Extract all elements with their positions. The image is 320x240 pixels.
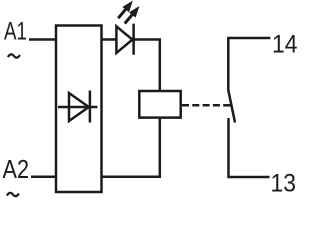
diode V1 triangle (69, 93, 89, 121)
module box (input circuit rectangle) (56, 26, 102, 193)
mechanical link (dashed) coil to contact (182, 104, 221, 107)
wire A1 to module box (29, 38, 57, 41)
wire box to LED anode (102, 38, 117, 41)
LED cathode bar (132, 24, 135, 55)
AC symbol under A1 (8, 54, 20, 57)
LED emission arrow 2 head (129, 6, 139, 18)
LED emission arrow 1 head (122, 1, 132, 13)
wire coil bottom down (159, 118, 162, 178)
contact lower fixed lead (227, 118, 230, 178)
diode V1 axis line (58, 106, 98, 109)
wire down to relay coil (159, 38, 162, 91)
wire terminal 14 (228, 37, 270, 40)
svg-text:A2: A2 (3, 156, 30, 184)
LED emission arrow 2 stem (125, 14, 133, 24)
wire terminal 13 (229, 176, 270, 179)
wire LED cathode to corner (134, 38, 160, 41)
AC symbol under A2 (7, 193, 19, 196)
LED emission arrow 1 stem (118, 9, 126, 19)
svg-text:A1: A1 (4, 18, 27, 46)
relay coil K1 (139, 91, 180, 118)
svg-text:13: 13 (271, 169, 297, 197)
contact upper fixed lead (227, 37, 230, 91)
diode V1 cathode bar (89, 91, 92, 123)
wire A2 to module box (31, 175, 57, 178)
contact moving arm (228, 90, 235, 123)
svg-text:14: 14 (272, 30, 298, 58)
LED triangle (116, 26, 132, 53)
mechanical link final segment touching contact arm (223, 104, 232, 107)
wire box to coil branch (A2 net) (102, 175, 162, 178)
